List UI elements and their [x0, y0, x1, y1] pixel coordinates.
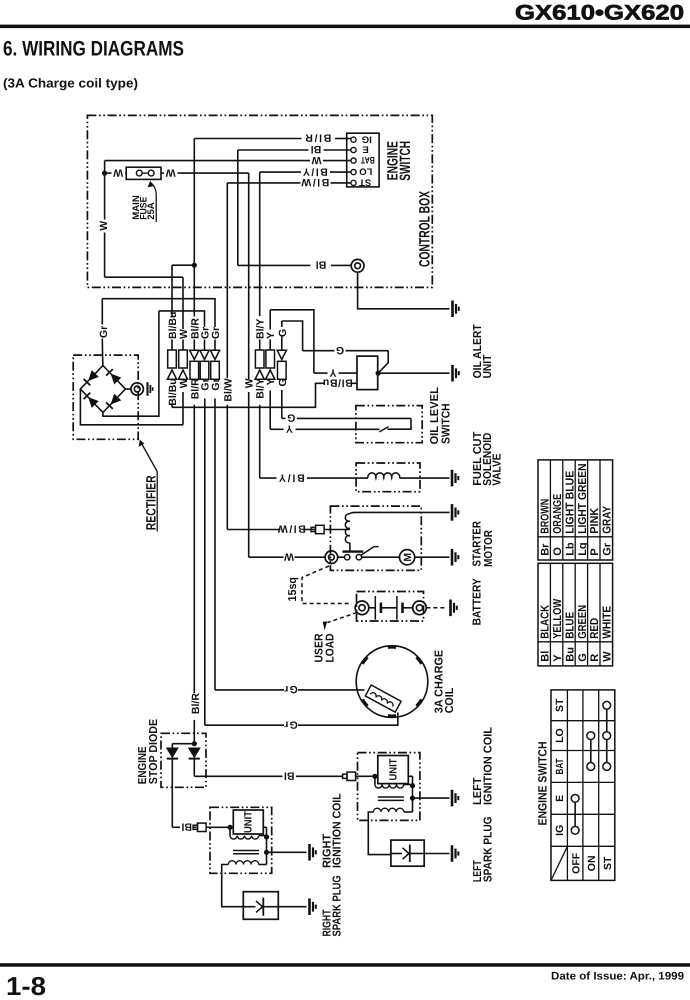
svg-text:STOP DIODE: STOP DIODE — [148, 719, 160, 785]
svg-text:OFF: OFF — [570, 852, 582, 874]
svg-text:G: G — [287, 412, 295, 424]
svg-text:W: W — [311, 154, 321, 166]
svg-text:W: W — [166, 166, 176, 178]
svg-text:E: E — [554, 795, 566, 802]
svg-text:LO: LO — [554, 728, 566, 743]
svg-text:GRAY: GRAY — [602, 506, 614, 534]
svg-text:Bl/W: Bl/W — [278, 523, 306, 535]
svg-text:W: W — [113, 166, 123, 178]
svg-text:Bl/W: Bl/W — [222, 378, 234, 401]
svg-text:CONTROL BOX: CONTROL BOX — [417, 191, 434, 267]
svg-text:25A: 25A — [146, 202, 157, 220]
svg-text:Lb: Lb — [564, 542, 576, 556]
svg-text:Bl: Bl — [311, 143, 322, 155]
svg-text:Bl/R: Bl/R — [190, 693, 202, 714]
svg-text:R: R — [589, 654, 601, 662]
svg-text:LIGHT BLUE: LIGHT BLUE — [564, 471, 576, 534]
svg-text:VALVE: VALVE — [491, 453, 503, 486]
svg-text:IG: IG — [362, 133, 372, 144]
svg-text:Bl: Bl — [284, 770, 295, 782]
svg-text:Bl/R: Bl/R — [305, 132, 331, 144]
svg-text:W: W — [178, 378, 190, 388]
svg-text:ST: ST — [359, 176, 371, 187]
svg-text:W: W — [602, 651, 614, 662]
svg-text:6. WIRING DIAGRAMS: 6. WIRING DIAGRAMS — [3, 38, 184, 61]
svg-text:(3A Charge coil type): (3A Charge coil type) — [3, 76, 138, 91]
svg-text:Y: Y — [265, 332, 277, 339]
svg-text:UNIT: UNIT — [482, 355, 494, 379]
svg-text:W: W — [284, 550, 294, 562]
svg-text:Lg: Lg — [577, 542, 589, 555]
svg-text:STARTER: STARTER — [471, 521, 483, 567]
svg-text:BLUE: BLUE — [564, 612, 576, 639]
svg-text:Bl: Bl — [316, 259, 327, 271]
svg-text:Y: Y — [286, 423, 293, 435]
svg-text:W: W — [98, 221, 110, 231]
svg-text:RED: RED — [589, 618, 601, 639]
svg-text:OIL LEVEL: OIL LEVEL — [429, 387, 441, 444]
svg-text:O: O — [552, 547, 564, 556]
svg-text:Y: Y — [552, 654, 564, 662]
svg-text:Gr: Gr — [284, 718, 298, 730]
svg-text:UNIT: UNIT — [243, 810, 255, 833]
svg-text:W: W — [178, 329, 190, 339]
svg-text:G: G — [277, 329, 289, 337]
svg-text:LIGHT GREEN: LIGHT GREEN — [577, 463, 589, 533]
svg-text:BLACK: BLACK — [540, 604, 552, 639]
svg-text:LOAD: LOAD — [325, 634, 337, 663]
svg-text:LO: LO — [359, 166, 372, 177]
svg-text:Gr: Gr — [210, 378, 222, 390]
svg-text:SWITCH: SWITCH — [397, 141, 414, 181]
svg-text:YELLOW: YELLOW — [552, 599, 564, 639]
svg-text:P: P — [589, 548, 601, 555]
svg-text:1-8: 1-8 — [6, 971, 46, 1000]
svg-text:BAT: BAT — [554, 758, 566, 774]
svg-text:PINK: PINK — [589, 507, 601, 534]
svg-text:SWITCH: SWITCH — [441, 403, 453, 444]
svg-text:GREEN: GREEN — [577, 605, 589, 639]
svg-text:BAT: BAT — [361, 154, 375, 165]
svg-text:ST: ST — [554, 698, 566, 712]
svg-text:SPARK PLUG: SPARK PLUG — [483, 816, 495, 882]
svg-text:Bl: Bl — [181, 821, 192, 833]
svg-text:E: E — [362, 144, 368, 155]
svg-text:ST: ST — [602, 856, 614, 870]
svg-text:Bu: Bu — [564, 647, 576, 662]
svg-text:IG: IG — [554, 825, 566, 836]
svg-text:ENGINE SWITCH: ENGINE SWITCH — [536, 742, 550, 826]
svg-text:G: G — [277, 378, 289, 386]
svg-text:Gr: Gr — [602, 542, 614, 556]
svg-text:ORANGE: ORANGE — [552, 494, 564, 534]
svg-text:IGNITION COIL: IGNITION COIL — [483, 727, 495, 805]
svg-text:15sq: 15sq — [287, 577, 299, 602]
svg-text:M: M — [402, 553, 414, 562]
svg-text:Gr: Gr — [210, 327, 222, 339]
svg-text:Y: Y — [265, 378, 277, 385]
svg-text:G: G — [577, 653, 589, 662]
svg-text:RECTIFIER: RECTIFIER — [143, 475, 158, 530]
svg-text:MOTOR: MOTOR — [483, 530, 495, 567]
svg-text:G: G — [336, 344, 344, 356]
svg-text:Bl/Bu: Bl/Bu — [323, 377, 353, 389]
svg-text:COIL: COIL — [444, 688, 456, 714]
svg-text:GX610•GX620: GX610•GX620 — [515, 2, 684, 25]
svg-text:Gr: Gr — [284, 683, 298, 695]
svg-text:ENGINE: ENGINE — [137, 746, 149, 784]
svg-text:IGNITION COIL: IGNITION COIL — [332, 793, 344, 868]
svg-text:UNIT: UNIT — [388, 758, 400, 781]
svg-text:BROWN: BROWN — [540, 499, 552, 534]
svg-text:Br: Br — [540, 543, 552, 556]
svg-text:WHITE: WHITE — [602, 606, 614, 639]
svg-text:Bl: Bl — [540, 651, 552, 662]
svg-text:ON: ON — [586, 855, 598, 871]
svg-text:Bl/W: Bl/W — [301, 176, 329, 188]
svg-text:Date of Issue: Apr., 1999: Date of Issue: Apr., 1999 — [551, 971, 684, 983]
svg-text:Gr: Gr — [98, 326, 110, 338]
svg-text:SPARK PLUG: SPARK PLUG — [332, 875, 344, 936]
svg-text:BATTERY: BATTERY — [472, 578, 484, 625]
